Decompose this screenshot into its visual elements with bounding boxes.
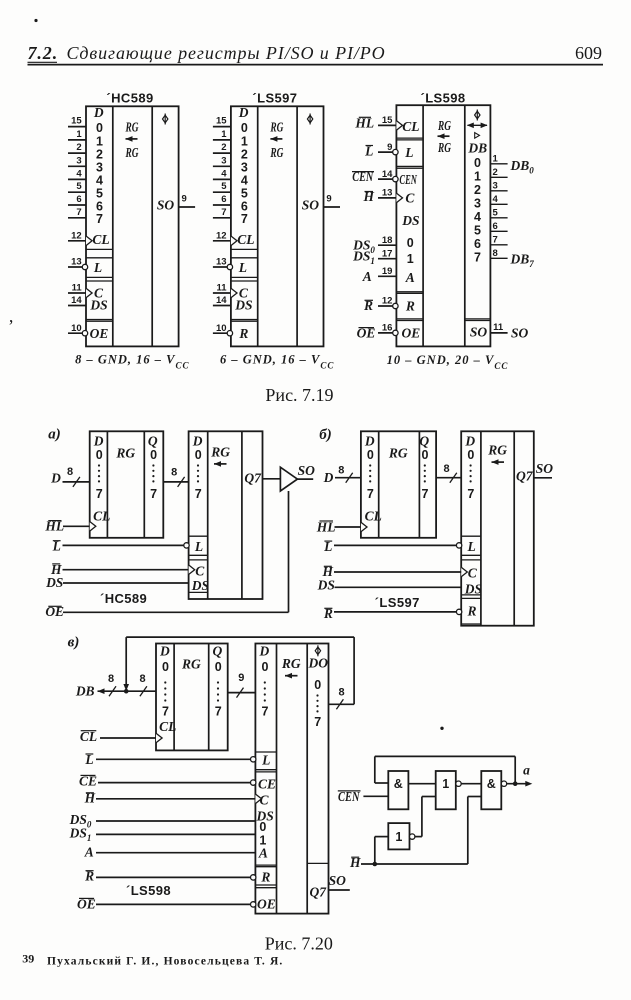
svg-text:1: 1 xyxy=(221,129,227,140)
svg-text:RG: RG xyxy=(125,119,139,134)
IC D3 LS598 outline xyxy=(396,105,490,346)
svg-text:0: 0 xyxy=(474,156,481,170)
v) CE label with bubble xyxy=(251,776,277,791)
v) DS0 net label and wire xyxy=(69,812,256,830)
IC D1 HC589 pin 12 CL clock input xyxy=(68,231,110,248)
svg-text:9: 9 xyxy=(326,193,331,204)
v) shift register D column labels xyxy=(259,643,270,718)
svg-text:2: 2 xyxy=(96,148,103,162)
svg-text:7.2.: 7.2. xyxy=(28,43,59,63)
svg-text:Рис. 7.20: Рис. 7.20 xyxy=(265,933,333,953)
IC D3 DB pins 1-8 xyxy=(490,154,507,260)
svg-text:RG: RG xyxy=(270,119,284,134)
svg-text:11: 11 xyxy=(493,322,504,333)
svg-text:5: 5 xyxy=(76,181,82,192)
svg-text:7: 7 xyxy=(76,207,81,218)
v) latch D column labels xyxy=(159,643,170,718)
svg-text:4: 4 xyxy=(493,194,499,205)
b) latch CL label and clock wedge xyxy=(361,508,382,532)
svg-text:0: 0 xyxy=(259,820,266,834)
svg-text:OE: OE xyxy=(402,326,421,341)
svg-text:Q7: Q7 xyxy=(244,470,262,485)
svg-text:CE: CE xyxy=(258,776,276,791)
a) shift register RG label with left arrow xyxy=(210,444,230,466)
svg-text:5: 5 xyxy=(221,181,227,192)
svg-text:D: D xyxy=(364,433,375,448)
IC D3 DS mode label xyxy=(401,213,419,228)
b) latch block outline xyxy=(361,431,436,538)
svg-text:Сдвигающие регистры PI/SO и PI: Сдвигающие регистры PI/SO и PI/PO xyxy=(67,43,386,63)
svg-text:8: 8 xyxy=(67,466,73,478)
svg-text:Q: Q xyxy=(419,433,429,448)
svg-text:0: 0 xyxy=(96,121,103,135)
svg-text:L: L xyxy=(466,539,475,554)
IC D3 DB0 net label xyxy=(510,158,535,176)
gates feedback top wire xyxy=(375,756,515,783)
gate G4 inverter xyxy=(388,823,415,849)
svg-text:0: 0 xyxy=(314,678,321,692)
IC D2 LS597 pin 13 L latch input xyxy=(213,257,247,275)
b) R net label and wire xyxy=(323,606,457,621)
gate G1 AND xyxy=(388,771,408,809)
a) shift register D column labels xyxy=(192,433,203,501)
IC D2 LS597 power note 6 xyxy=(220,353,334,371)
IC D2 LS597 clock phase symbol xyxy=(307,114,312,125)
a) SO output label and wire xyxy=(297,463,315,479)
svg-text:R: R xyxy=(405,299,415,314)
IC D2 LS597 pin 11 C shift clock xyxy=(213,283,249,301)
diagram marker a) xyxy=(48,427,61,443)
svg-text:Q: Q xyxy=(148,433,158,448)
svg-text:CL: CL xyxy=(237,232,254,247)
svg-text:A: A xyxy=(258,846,268,861)
svg-text:0: 0 xyxy=(195,448,202,462)
svg-text:R: R xyxy=(260,869,270,884)
svg-text:7: 7 xyxy=(162,705,169,719)
a) DS net label and wire xyxy=(45,575,189,590)
IC D2 LS597 pin 12 CL clock input xyxy=(213,231,255,248)
svg-text:7: 7 xyxy=(467,487,474,501)
H net label and wire xyxy=(349,855,468,870)
IC D1 HC589 SO output label xyxy=(157,197,175,212)
svg-text:D: D xyxy=(93,433,104,448)
IC D1 HC589 title HC589 xyxy=(106,91,153,106)
svg-text:0: 0 xyxy=(162,660,169,674)
svg-text:A: A xyxy=(405,270,415,285)
svg-text:DB: DB xyxy=(75,683,95,698)
svg-text:RG: RG xyxy=(210,444,230,459)
svg-text:8 – GND, 16 – VCC: 8 – GND, 16 – VCC xyxy=(75,353,189,371)
svg-text:CL: CL xyxy=(93,508,110,523)
IC D2 LS597 outline xyxy=(231,106,324,346)
v) feedback arrow into DB node xyxy=(123,684,129,691)
svg-text:11: 11 xyxy=(217,283,228,294)
v) DB net label and bidirectional bus xyxy=(75,673,156,698)
IC D2 LS597 data column labels D 0-7 xyxy=(238,105,249,226)
svg-text:4: 4 xyxy=(221,168,227,179)
svg-text:5: 5 xyxy=(474,223,481,237)
svg-text:16: 16 xyxy=(382,323,393,334)
svg-text:A: A xyxy=(84,845,94,860)
IC D1 HC589 pin 9 SO output stub xyxy=(179,193,196,207)
svg-text:12: 12 xyxy=(71,231,82,242)
svg-text:15: 15 xyxy=(216,116,227,127)
svg-text:10 – GND, 20 – VCC: 10 – GND, 20 – VCC xyxy=(387,353,509,371)
b) shift register C DS section xyxy=(461,560,482,596)
IC D1 HC589 control section dividers xyxy=(86,249,113,321)
v) shift register OE section xyxy=(251,888,277,912)
svg-text:7: 7 xyxy=(262,705,269,719)
a) latch block outline xyxy=(90,431,164,538)
svg-text:C: C xyxy=(468,565,478,580)
svg-text:CL: CL xyxy=(365,508,382,523)
svg-text:1: 1 xyxy=(407,252,414,266)
CEN net label and wire to G1 xyxy=(338,789,389,804)
b) HL net label and wire to latch clock xyxy=(316,519,361,534)
b) input D net label and bus wire xyxy=(323,464,361,485)
svg-text:9: 9 xyxy=(238,672,244,684)
gate G3 NAND output xyxy=(481,771,506,809)
a) input D net label and bus wire xyxy=(50,466,90,487)
IC D3 pin 14 CEN input with CEN net label xyxy=(352,169,418,187)
svg-text:L: L xyxy=(194,539,203,554)
IC D3 clock phase and bidirectional symbols xyxy=(467,110,488,139)
IC D3 SO section divider xyxy=(465,319,491,321)
svg-text:D: D xyxy=(259,643,270,658)
svg-text:´HC589: ´HC589 xyxy=(100,591,147,606)
IC D3 DB column label xyxy=(467,140,487,155)
svg-text:OE: OE xyxy=(257,896,276,911)
svg-text:D: D xyxy=(323,470,334,485)
v) DS select digits 0 1 and A xyxy=(258,820,268,861)
b) shift register Q7 output label xyxy=(516,469,534,484)
svg-text:L: L xyxy=(238,260,247,275)
IC D1 HC589 pin 10 OE input xyxy=(68,323,108,341)
svg-text:2: 2 xyxy=(221,142,226,153)
svg-text:DS: DS xyxy=(89,297,107,312)
IC D1 HC589 data column labels D 0-7 xyxy=(93,105,104,226)
svg-text:7: 7 xyxy=(241,212,248,226)
figure caption Ris. 7.20 xyxy=(265,933,333,953)
svg-text:RG: RG xyxy=(125,145,139,160)
svg-text:Q7: Q7 xyxy=(310,884,328,899)
svg-text:1: 1 xyxy=(96,134,103,148)
svg-text:39: 39 xyxy=(22,952,34,966)
a) shift register block outline xyxy=(189,431,263,599)
b) chip name LS597 xyxy=(375,595,420,610)
svg-text:RG: RG xyxy=(181,656,201,671)
svg-text:14: 14 xyxy=(382,169,393,180)
svg-text:8: 8 xyxy=(140,673,146,685)
gate G2 OR-NOT xyxy=(436,771,461,809)
v) latch CL label and clock wedge xyxy=(156,719,176,743)
svg-text:7: 7 xyxy=(221,207,226,218)
svg-text:0: 0 xyxy=(407,236,414,250)
svg-text:DS: DS xyxy=(317,577,335,592)
svg-text:0: 0 xyxy=(241,121,248,135)
v) latch RG label xyxy=(181,656,201,671)
svg-text:19: 19 xyxy=(382,266,393,277)
svg-text:7: 7 xyxy=(215,705,222,719)
IC D1 HC589 pin 11 C shift clock xyxy=(68,283,104,301)
svg-text:7: 7 xyxy=(367,487,374,501)
svg-text:2: 2 xyxy=(474,183,481,197)
svg-text:а): а) xyxy=(48,427,61,443)
svg-text:D: D xyxy=(159,643,170,658)
v) C label with clock wedge xyxy=(255,793,269,808)
b) shift register D column labels xyxy=(464,433,475,501)
a) Q7 wire to buffer xyxy=(263,478,281,480)
footer footnote number 39 xyxy=(22,952,34,966)
wire H to G3 lower input xyxy=(468,797,482,865)
svg-text:´LS598: ´LS598 xyxy=(420,91,465,106)
IC D3 pin 9 L input with L net label xyxy=(364,142,413,160)
svg-text:DS: DS xyxy=(191,578,209,593)
v) shift register block outline xyxy=(255,644,328,914)
svg-text:б): б) xyxy=(319,427,331,443)
svg-text:8: 8 xyxy=(108,673,114,685)
svg-text:15: 15 xyxy=(382,115,393,126)
v) shift register L section xyxy=(251,752,277,770)
svg-text:DS: DS xyxy=(45,575,63,590)
IC D3 SO output label xyxy=(470,325,488,340)
svg-text:RG: RG xyxy=(437,140,451,155)
IC D3 control column dividers xyxy=(396,138,423,320)
svg-text:RG: RG xyxy=(487,443,507,458)
svg-text:L: L xyxy=(93,260,102,275)
svg-text:11: 11 xyxy=(72,283,83,294)
IC D2 LS597 control section dividers xyxy=(231,249,258,321)
svg-text:A: A xyxy=(362,269,372,284)
svg-text:8: 8 xyxy=(493,248,498,259)
IC D3 pin 15 CL input with HL net label xyxy=(354,115,419,134)
svg-text:D: D xyxy=(50,471,61,486)
svg-text:18: 18 xyxy=(382,235,393,246)
IC D3 pin 11 SO output with SO net label xyxy=(490,322,528,341)
IC D1 HC589 power note 8 xyxy=(75,353,189,371)
svg-text:0: 0 xyxy=(422,448,429,462)
v) R net label and wire xyxy=(84,869,250,884)
IC D2 LS597 pin 10 R input xyxy=(213,323,249,341)
svg-text:1: 1 xyxy=(474,169,481,183)
svg-text:1: 1 xyxy=(442,777,449,791)
a) OE net label and wire to output buffer xyxy=(45,491,288,619)
svg-text:DB7: DB7 xyxy=(510,252,535,270)
IC D3 pin 17 DS1 input xyxy=(352,248,414,266)
svg-text:4: 4 xyxy=(474,210,481,224)
svg-text:14: 14 xyxy=(71,295,82,306)
svg-text:Рис. 7.19: Рис. 7.19 xyxy=(265,385,333,405)
svg-text:13: 13 xyxy=(71,257,82,268)
svg-text:L: L xyxy=(404,145,413,160)
svg-text:RG: RG xyxy=(115,445,135,460)
IC D2 LS597 SO output label xyxy=(302,197,320,212)
svg-text:6: 6 xyxy=(221,194,226,205)
v) shift register RG label with left arrow xyxy=(281,656,301,678)
svg-text:C: C xyxy=(260,793,270,808)
svg-text:´LS598: ´LS598 xyxy=(126,883,171,898)
b) latch D column labels xyxy=(364,433,375,501)
wire G1 to G2 xyxy=(408,783,435,785)
IC D2 LS597 register symbol RG arrow xyxy=(270,119,284,160)
IC D3 DB7 net label xyxy=(510,252,535,270)
IC D2 LS597 pin 14 DS serial input xyxy=(213,295,253,312)
svg-text:0: 0 xyxy=(150,448,157,462)
svg-text:17: 17 xyxy=(382,248,393,259)
v) shift register R section xyxy=(251,867,277,885)
a) shift register L section xyxy=(184,536,208,555)
svg-text:DB: DB xyxy=(467,140,487,155)
svg-text:2: 2 xyxy=(76,142,81,153)
svg-text:9: 9 xyxy=(181,193,186,204)
svg-text:1: 1 xyxy=(241,134,248,148)
page speck top-left xyxy=(34,19,37,22)
v) DS1 net label and wire xyxy=(69,825,256,843)
svg-text:а: а xyxy=(523,762,530,777)
svg-text:RG: RG xyxy=(281,656,301,671)
v) CE net label and wire xyxy=(79,774,251,789)
b) shift register RG label with left arrow xyxy=(487,443,507,465)
svg-text:8: 8 xyxy=(171,467,177,479)
svg-text:D: D xyxy=(464,433,475,448)
b) SO output label and wire xyxy=(534,461,553,478)
svg-text:Q: Q xyxy=(213,643,223,658)
svg-text:15: 15 xyxy=(71,116,82,127)
b) latch RG label xyxy=(388,445,408,460)
svg-text:8: 8 xyxy=(338,464,344,476)
svg-text:12: 12 xyxy=(216,231,227,242)
a) shift register C DS section xyxy=(189,560,209,593)
wire G2 to G3 xyxy=(461,783,481,785)
IC D3 power note 10-GND 20-VCC xyxy=(387,353,509,371)
svg-text:´LS597: ´LS597 xyxy=(252,91,297,106)
v) DS label xyxy=(256,809,274,824)
svg-text:DS: DS xyxy=(401,213,419,228)
svg-text:10: 10 xyxy=(71,323,82,334)
node H junction to G4 xyxy=(373,837,389,867)
svg-text:609: 609 xyxy=(575,43,602,63)
IC D2 LS597 data input pins 15,1-7 xyxy=(213,116,231,218)
svg-text:RG: RG xyxy=(388,445,408,460)
v) DO 8-bit bus to feedback xyxy=(329,687,355,710)
svg-text:RG: RG xyxy=(270,145,284,160)
svg-text:6: 6 xyxy=(493,221,498,232)
IC D2 LS597 pin 9 SO output stub xyxy=(324,193,341,207)
header section number 7.2. xyxy=(28,43,59,63)
v) Q7 SO output section xyxy=(307,863,350,899)
svg-text:DS: DS xyxy=(464,581,482,596)
svg-text:1: 1 xyxy=(395,830,402,844)
svg-text:0: 0 xyxy=(467,448,474,462)
svg-text:´HC589: ´HC589 xyxy=(106,91,153,106)
svg-text:SO: SO xyxy=(298,463,316,478)
IC D3 pin 13 C input with H net label xyxy=(362,188,415,206)
IC D3 pin 16 OE input with OE net label xyxy=(357,323,421,341)
v) H net label and wire to C xyxy=(84,791,256,806)
a) H net label and wire to C xyxy=(50,562,189,577)
svg-text:Пухальский Г. И., Новосельцева: Пухальский Г. И., Новосельцева Т. Я. xyxy=(47,955,283,967)
svg-text:3: 3 xyxy=(221,155,226,166)
IC D3 pin 19 A input xyxy=(362,266,415,285)
IC D1 HC589 outline xyxy=(86,106,179,346)
svg-text:7: 7 xyxy=(474,250,481,264)
svg-text:0: 0 xyxy=(367,448,374,462)
svg-text:0: 0 xyxy=(262,660,269,674)
b) shift register R section xyxy=(456,598,481,624)
svg-text:DB0: DB0 xyxy=(510,158,535,176)
svg-text:7: 7 xyxy=(493,235,498,246)
svg-text:7: 7 xyxy=(96,212,103,226)
diagram marker v) xyxy=(68,635,80,651)
a) chip name HC589 xyxy=(100,591,147,606)
svg-text:14: 14 xyxy=(216,295,227,306)
svg-text:&: & xyxy=(394,777,403,791)
svg-text:Q7: Q7 xyxy=(516,469,534,484)
svg-text:9: 9 xyxy=(387,142,392,153)
IC D2 LS597 title LS597 xyxy=(252,91,297,106)
b) latch Q column labels xyxy=(419,433,429,501)
svg-text:D: D xyxy=(192,433,203,448)
svg-text:D: D xyxy=(238,105,249,120)
svg-text:0: 0 xyxy=(96,448,103,462)
svg-text:SO: SO xyxy=(157,197,175,212)
IC D1 HC589 pin 13 L latch input xyxy=(68,257,102,275)
header title xyxy=(67,43,386,63)
b) L net label and wire xyxy=(323,539,456,554)
margin mark left xyxy=(8,316,14,336)
b) DS net label and wire xyxy=(317,577,462,592)
footer authors xyxy=(47,955,283,967)
header rule xyxy=(28,64,604,66)
a) latch CL label and clock wedge xyxy=(90,508,111,531)
v) latch Q column labels xyxy=(213,643,223,718)
svg-text:6: 6 xyxy=(76,194,81,205)
svg-text:6: 6 xyxy=(474,237,481,251)
svg-text:R: R xyxy=(466,604,476,619)
svg-text:´LS597: ´LS597 xyxy=(375,595,420,610)
v) 9-bit bus latch to shift register xyxy=(228,672,256,698)
svg-text:3: 3 xyxy=(493,181,498,192)
v) A net label and wire xyxy=(84,845,256,860)
b) 8-bit bus latch to shift register xyxy=(436,463,461,483)
svg-text:OE: OE xyxy=(90,326,109,341)
svg-text:в): в) xyxy=(68,635,80,651)
svg-text:7: 7 xyxy=(96,487,103,501)
svg-text:12: 12 xyxy=(382,296,393,307)
svg-text:CL: CL xyxy=(402,119,419,134)
svg-text:13: 13 xyxy=(216,257,227,268)
IC D3 pin 12 R input with R net label xyxy=(363,296,415,314)
svg-text:HL: HL xyxy=(316,519,336,534)
svg-text:D: D xyxy=(93,105,104,120)
a) three-state output buffer xyxy=(280,467,297,491)
IC D3 pin 18 DS0 input xyxy=(352,235,414,255)
svg-text:&: & xyxy=(487,777,496,791)
svg-text:8: 8 xyxy=(444,463,450,475)
IC D3 DB digits 0-7 xyxy=(474,156,481,264)
svg-text:7: 7 xyxy=(314,715,321,729)
svg-text:SO: SO xyxy=(511,326,529,341)
svg-text:CEN: CEN xyxy=(399,172,417,187)
svg-text:0: 0 xyxy=(215,660,222,674)
v) shift register control section box xyxy=(255,772,276,865)
svg-text:3: 3 xyxy=(474,196,481,210)
svg-text:13: 13 xyxy=(382,188,393,199)
svg-text:DS: DS xyxy=(234,297,252,312)
v) node DB junction xyxy=(124,689,129,694)
svg-text:’: ’ xyxy=(8,316,14,336)
svg-text:SO: SO xyxy=(329,873,347,888)
